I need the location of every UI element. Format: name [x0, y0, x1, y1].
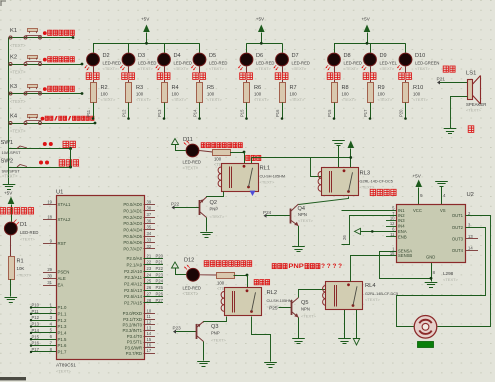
svg-text:R2: R2	[101, 85, 108, 91]
svg-text:100: 100	[207, 92, 215, 97]
svg-text:LED-RED: LED-RED	[256, 60, 274, 65]
svg-text:SW1: SW1	[1, 140, 14, 146]
svg-text:<TEXT>: <TEXT>	[344, 66, 360, 71]
svg-text:<TEXT>: <TEXT>	[183, 291, 199, 296]
svg-text:28: 28	[147, 298, 152, 303]
svg-text:<TEXT>: <TEXT>	[254, 97, 270, 102]
svg-text:P27: P27	[156, 298, 164, 303]
svg-text:D10: D10	[415, 53, 425, 59]
svg-text:P3.5/T1: P3.5/T1	[127, 340, 143, 345]
svg-text:36: 36	[147, 218, 152, 223]
svg-text:P21: P21	[437, 77, 446, 83]
red label inlet valve	[246, 155, 250, 160]
pin XTAL1	[43, 204, 56, 206]
pin XTAL2	[43, 219, 56, 221]
svg-text:<TEXT>: <TEXT>	[101, 97, 117, 102]
ground above U2 (VS)	[435, 181, 448, 183]
resistor R2	[91, 80, 117, 103]
svg-text:LED-GREEN: LED-GREEN	[415, 60, 439, 65]
relay RL2	[221, 288, 292, 316]
wire U2 GND pin	[431, 263, 433, 282]
svg-text:<TEXT>: <TEXT>	[209, 66, 225, 71]
wire IN3	[386, 220, 396, 222]
terminal arrow D11	[172, 139, 179, 145]
svg-text:P23: P23	[156, 272, 164, 277]
svg-text:IN1: IN1	[398, 208, 405, 213]
svg-text:<TEXT>: <TEXT>	[466, 108, 482, 113]
relay RL4	[323, 282, 399, 310]
svg-text:100: 100	[254, 92, 262, 97]
wire R1 to ground	[10, 279, 12, 297]
svg-text:R4: R4	[172, 85, 179, 91]
svg-text:P3.1/TXD: P3.1/TXD	[123, 317, 142, 322]
svg-text:<TEXT>: <TEXT>	[20, 237, 36, 242]
switch K2	[9, 55, 84, 75]
svg-text:P0.4/AD4: P0.4/AD4	[123, 228, 142, 233]
svg-text:P1.3: P1.3	[58, 324, 68, 329]
svg-text:P0.1/AD1: P0.1/AD1	[123, 208, 142, 213]
resistor R7	[280, 80, 306, 103]
LED D8	[325, 43, 361, 71]
svg-text:P0.5/AD5: P0.5/AD5	[123, 234, 142, 239]
svg-text:P22: P22	[156, 266, 164, 271]
svg-text:ALE: ALE	[58, 276, 66, 281]
LED D11	[175, 137, 201, 171]
svg-text:RL1: RL1	[260, 166, 271, 172]
pin P1.4	[31, 332, 56, 334]
svg-text:P21: P21	[156, 260, 164, 265]
wire IN1	[342, 210, 397, 212]
red question note	[272, 264, 276, 269]
resistor R-inlet 100	[199, 150, 230, 168]
svg-text:P13: P13	[32, 322, 40, 327]
svg-text:29: 29	[47, 267, 52, 272]
pin P2.0/A8	[144, 258, 164, 260]
svg-text:23: 23	[147, 266, 152, 271]
svg-text:31: 31	[47, 280, 52, 285]
terminal blue arrow RL1	[250, 191, 256, 196]
wire R10 down / net label	[405, 103, 407, 119]
svg-text:CU-SH-105HM: CU-SH-105HM	[267, 299, 293, 303]
wire speaker to ground	[451, 97, 468, 129]
ground RL2 contact	[264, 362, 277, 364]
pin P0.4/AD4	[144, 229, 156, 231]
wire D1 to R1	[10, 235, 12, 256]
svg-text:10: 10	[147, 308, 152, 313]
resistor R1	[9, 257, 33, 280]
wire left key bus	[8, 38, 10, 185]
pin P2.5/A13	[144, 290, 164, 292]
svg-text:P1.4: P1.4	[58, 331, 68, 336]
svg-text:21: 21	[147, 253, 152, 258]
motor driver U2 L298	[397, 192, 474, 282]
wire Q5 collector to RL4 coil	[299, 290, 326, 298]
svg-text:P3.2/INT0: P3.2/INT0	[122, 323, 142, 328]
red label 漂洗	[334, 66, 336, 73]
red label 标准	[93, 66, 95, 73]
svg-text:XTAL1: XTAL1	[58, 202, 72, 207]
LED D9	[361, 43, 397, 71]
svg-text:100: 100	[172, 92, 180, 97]
svg-text:<TEXT>: <TEXT>	[298, 218, 314, 223]
motor green label	[418, 342, 434, 348]
svg-text:ENA: ENA	[398, 229, 407, 234]
svg-text:P16: P16	[275, 109, 280, 117]
svg-text:LED-RED: LED-RED	[174, 60, 192, 65]
wire +5V bus	[93, 43, 200, 45]
svg-text:P3.7/RD: P3.7/RD	[126, 351, 142, 356]
svg-text:+5V: +5V	[141, 17, 150, 22]
pin P1.7	[31, 351, 56, 353]
LED D1	[4, 220, 38, 242]
svg-text:27: 27	[147, 291, 152, 296]
pin P2.2/A10	[144, 271, 164, 273]
svg-text:R5: R5	[207, 85, 214, 91]
wire RL4 to ground	[344, 310, 346, 338]
pin P1.2	[31, 320, 56, 322]
ground below U2	[425, 282, 438, 284]
svg-text:D6: D6	[256, 53, 263, 59]
svg-text:D1: D1	[20, 222, 27, 228]
wire SENSA to gnd rail	[380, 252, 432, 279]
svg-text:PNP: PNP	[211, 330, 220, 335]
svg-text:P10: P10	[32, 303, 40, 308]
pin P2.4/A12	[144, 283, 164, 285]
svg-text:<TEXT>: <TEXT>	[292, 66, 308, 71]
terminal down arrow RL4	[356, 310, 358, 338]
svg-text:RL4: RL4	[365, 283, 376, 289]
svg-text:<TEXT>: <TEXT>	[378, 97, 394, 102]
pin P0.0/AD0	[144, 204, 156, 206]
wire R9 down / net label	[370, 103, 372, 119]
svg-text:<TEXT>: <TEXT>	[301, 313, 317, 318]
red label drain valve	[254, 280, 258, 285]
svg-text:12: 12	[390, 221, 395, 226]
wire IN2	[342, 216, 397, 245]
pin RST	[43, 243, 56, 245]
svg-text:P15: P15	[32, 334, 40, 339]
svg-text:P23: P23	[173, 326, 182, 331]
wire RL2 contact to ground	[252, 317, 271, 362]
red label 单独	[164, 66, 166, 73]
LED D3	[120, 43, 156, 71]
LED D10	[397, 43, 440, 71]
ground below Q5	[292, 338, 305, 340]
svg-text:<TEXT>: <TEXT>	[290, 97, 306, 102]
svg-text:OUT1: OUT1	[452, 213, 464, 218]
svg-text:P0.3/AD3: P0.3/AD3	[123, 221, 142, 226]
pin P3.7/RD	[144, 353, 156, 355]
red label use	[468, 126, 474, 133]
svg-text:U1: U1	[56, 189, 63, 195]
svg-text:P11: P11	[32, 309, 40, 314]
svg-text:IN3: IN3	[398, 218, 405, 223]
wire R2 down / net label	[93, 103, 95, 119]
ground below RL4	[338, 338, 351, 340]
pin P3.6/WR	[144, 347, 156, 349]
svg-text:P2.2/A10: P2.2/A10	[124, 269, 142, 274]
svg-text:P20: P20	[156, 253, 164, 258]
relay RL3	[318, 168, 393, 196]
ground key bus	[3, 184, 16, 186]
pin P1.0	[31, 307, 56, 309]
svg-text:P3.0/RXD: P3.0/RXD	[123, 311, 142, 316]
speaker LS1	[466, 71, 486, 113]
svg-text:P0.0/AD0: P0.0/AD0	[123, 202, 142, 207]
svg-text:24: 24	[147, 272, 152, 277]
svg-text:100: 100	[413, 92, 421, 97]
svg-text:P13: P13	[157, 109, 162, 117]
red label 排水	[199, 66, 201, 73]
LED D7	[273, 43, 309, 71]
svg-text:P25: P25	[156, 285, 164, 290]
LED D12	[175, 257, 201, 296]
svg-text:39: 39	[147, 199, 152, 204]
svg-text:OUT3: OUT3	[452, 236, 464, 241]
svg-text:<TEXT>: <TEXT>	[342, 97, 358, 102]
svg-text:D5: D5	[209, 53, 216, 59]
svg-text:34: 34	[147, 231, 152, 236]
switch K4	[9, 114, 97, 134]
pin P0.3/AD3	[144, 223, 156, 225]
svg-text:Q2: Q2	[210, 200, 217, 206]
svg-text:+5V: +5V	[362, 17, 371, 22]
wire +5V bus	[247, 43, 283, 45]
svg-text:OUT2: OUT2	[452, 225, 464, 230]
svg-text:P2.1/A9: P2.1/A9	[127, 262, 143, 267]
svg-text:D7: D7	[292, 53, 299, 59]
power +5V arrow above RL3	[348, 141, 355, 149]
svg-text:<TEXT>: <TEXT>	[415, 66, 431, 71]
svg-text:P26: P26	[156, 291, 164, 296]
sheet corner mark bottom-left	[0, 377, 26, 380]
svg-text:P0.7/AD7: P0.7/AD7	[123, 247, 142, 252]
svg-text:PSEN: PSEN	[58, 270, 70, 275]
svg-text:/: /	[68, 115, 72, 122]
svg-text:P2.5/A13: P2.5/A13	[124, 288, 142, 293]
svg-text:<TEXT>: <TEXT>	[10, 99, 26, 104]
svg-text:R10: R10	[413, 85, 423, 91]
svg-text:P17: P17	[32, 347, 40, 352]
svg-text:LED-RED: LED-RED	[103, 60, 121, 65]
switch SW2	[1, 159, 79, 174]
ground below speaker	[444, 128, 457, 130]
pin P3.2/INT0	[144, 324, 156, 326]
pin P2.7/A15	[144, 302, 164, 304]
svg-text:K1: K1	[10, 28, 17, 34]
svg-text:LED-RED: LED-RED	[183, 160, 201, 165]
svg-text:P24: P24	[263, 210, 272, 215]
svg-text:GND: GND	[426, 255, 435, 260]
svg-text:33: 33	[147, 237, 152, 242]
wire OUT2 to motor left	[397, 228, 486, 327]
ground below R1	[5, 297, 18, 299]
pin P1.5	[31, 339, 56, 341]
svg-text:XTAL2: XTAL2	[58, 217, 72, 222]
wire R5 down / net label	[199, 103, 201, 119]
svg-text:D2: D2	[103, 53, 110, 59]
svg-text:R9: R9	[378, 85, 385, 91]
svg-text:P1.2: P1.2	[58, 318, 68, 323]
svg-text:OUT4: OUT4	[452, 248, 464, 253]
svg-text:+5V: +5V	[256, 17, 265, 22]
svg-text:Q3: Q3	[211, 324, 218, 330]
svg-text:P2.6/A14: P2.6/A14	[124, 294, 142, 299]
svg-text:<TEXT>: <TEXT>	[443, 277, 459, 282]
transistor Q2 PNP	[200, 197, 226, 219]
red label 强洗	[246, 66, 248, 73]
svg-text:<TEXT>: <TEXT>	[413, 97, 429, 102]
sheet origin mark	[1, 1, 6, 6]
svg-text:K4: K4	[10, 114, 18, 120]
pin EA	[43, 285, 56, 287]
wire RL3 contact to Q4 collector	[299, 197, 349, 205]
pin P3.4/T0	[144, 336, 156, 338]
svg-text:P12: P12	[122, 109, 127, 117]
svg-text:25: 25	[147, 279, 152, 284]
svg-text:P14: P14	[193, 109, 198, 117]
svg-text:LED-RED: LED-RED	[292, 60, 310, 65]
svg-text:<TEXT>: <TEXT>	[2, 174, 18, 179]
svg-text:13: 13	[147, 325, 152, 330]
svg-text:ENB: ENB	[398, 234, 407, 239]
svg-text:<TEXT>: <TEXT>	[17, 273, 33, 278]
svg-text:U2: U2	[467, 192, 474, 198]
pin ALE	[43, 278, 56, 280]
svg-text:<TEXT>: <TEXT>	[207, 97, 223, 102]
pin P3.0/RXD	[144, 313, 156, 315]
svg-text:P2.0/A8: P2.0/A8	[127, 256, 143, 261]
wire +5V bus	[334, 43, 406, 45]
svg-text:P2.4/A12: P2.4/A12	[124, 282, 142, 287]
svg-text:<TEXT>: <TEXT>	[10, 43, 26, 48]
svg-text:<TEXT>: <TEXT>	[10, 128, 26, 133]
svg-text:PNP: PNP	[288, 263, 303, 270]
svg-text:P0.2/AD2: P0.2/AD2	[123, 215, 142, 220]
svg-text:VCC: VCC	[413, 208, 422, 213]
svg-text:18: 18	[47, 214, 52, 219]
svg-text:<TEXT>: <TEXT>	[256, 66, 272, 71]
svg-text:<TEXT>: <TEXT>	[211, 338, 227, 343]
svg-text:P16: P16	[32, 341, 40, 346]
svg-text:12: 12	[147, 320, 152, 325]
svg-text:100: 100	[101, 92, 109, 97]
svg-text:30: 30	[47, 273, 52, 278]
motor	[414, 316, 437, 339]
wire P22 to Q2 base	[175, 207, 200, 209]
pin P0.5/AD5	[144, 236, 156, 238]
svg-text:K2: K2	[10, 55, 17, 61]
wire P24 to Q4 base	[267, 215, 291, 217]
LED D5	[191, 43, 227, 71]
wire resistor to RL2	[234, 275, 248, 277]
svg-text:<TEXT>: <TEXT>	[380, 66, 396, 71]
svg-text:P20: P20	[399, 109, 404, 117]
wire SW1-SW2 right link	[70, 149, 72, 168]
svg-text:<TEXT>: <TEXT>	[183, 165, 199, 170]
svg-text:+5V: +5V	[4, 191, 13, 196]
wire R7 down / net label	[282, 103, 284, 119]
svg-text:G2RL-14D-CF-DC5: G2RL-14D-CF-DC5	[360, 180, 393, 184]
svg-text:SENSB: SENSB	[398, 253, 412, 258]
pin P1.6	[31, 345, 56, 347]
pin OUT3 stub	[465, 238, 478, 240]
svg-text:L298: L298	[443, 271, 454, 276]
svg-text:D3: D3	[138, 53, 145, 59]
wire R6 down / net label	[246, 103, 248, 119]
svg-text:22: 22	[147, 260, 152, 265]
svg-text:<TEXT>: <TEXT>	[174, 66, 190, 71]
resistor R9	[368, 80, 394, 103]
svg-text:100: 100	[136, 92, 144, 97]
pin P1.3	[31, 326, 56, 328]
svg-text:10: 10	[390, 216, 395, 221]
svg-text:LED-RED: LED-RED	[344, 60, 362, 65]
svg-text:<TEXT>: <TEXT>	[172, 97, 188, 102]
terminal arrow D12	[172, 262, 179, 268]
svg-text:8: 8	[433, 270, 436, 275]
svg-text:R1: R1	[17, 259, 24, 265]
pin P2.6/A14	[144, 296, 164, 298]
wire RL2 coil to Q3	[204, 317, 227, 323]
resistor R10	[403, 80, 429, 103]
svg-text:NPN: NPN	[301, 306, 310, 311]
switch K1	[9, 28, 75, 48]
pin P1.1	[31, 313, 56, 315]
svg-text:26: 26	[147, 285, 152, 290]
wire IN4	[386, 226, 396, 228]
svg-text:10A-SPST: 10A-SPST	[2, 150, 21, 155]
svg-text:14: 14	[468, 246, 473, 251]
svg-text:? ? ? ?: ? ? ? ?	[321, 263, 342, 270]
svg-text:P1.1: P1.1	[58, 311, 68, 316]
pin P3.1/TXD	[144, 319, 156, 321]
wire P21 to speaker	[440, 82, 468, 84]
svg-text:32: 32	[147, 244, 152, 249]
svg-text:IN4: IN4	[398, 224, 405, 229]
red label power LED	[0, 208, 5, 214]
svg-text:/: /	[54, 115, 58, 122]
svg-text:P25: P25	[269, 305, 278, 311]
pin OUT4 stub	[465, 250, 478, 252]
svg-text:35: 35	[147, 225, 152, 230]
wire Q3 collector to ground	[203, 342, 205, 361]
resistor R6	[244, 80, 270, 103]
wire P23 to Q3 base	[176, 331, 197, 333]
svg-text:LED-RED: LED-RED	[183, 285, 201, 290]
switch SW1	[1, 140, 76, 155]
svg-text:26: 26	[342, 235, 347, 240]
wire R3 down / net label	[128, 103, 130, 119]
pin P0.2/AD2	[144, 217, 156, 219]
svg-text:R6: R6	[254, 85, 261, 91]
wire +5V rail to RL3 coil	[311, 158, 322, 177]
svg-text:38: 38	[147, 206, 152, 211]
wire SENSB to RL4	[351, 256, 397, 282]
svg-text:P1.6: P1.6	[58, 343, 68, 348]
pin P0.6/AD6	[144, 242, 156, 244]
svg-text:P3.4/T0: P3.4/T0	[127, 334, 143, 339]
svg-text:100: 100	[378, 92, 386, 97]
svg-text:RL2: RL2	[267, 290, 278, 296]
svg-text:LS1: LS1	[466, 71, 476, 77]
svg-text:D9: D9	[380, 53, 387, 59]
wire R8 down / net label	[334, 103, 336, 119]
resistor R5	[197, 80, 223, 103]
svg-text:17: 17	[147, 348, 152, 353]
svg-text:100: 100	[217, 280, 225, 285]
wire resistor to RL1	[230, 152, 244, 154]
